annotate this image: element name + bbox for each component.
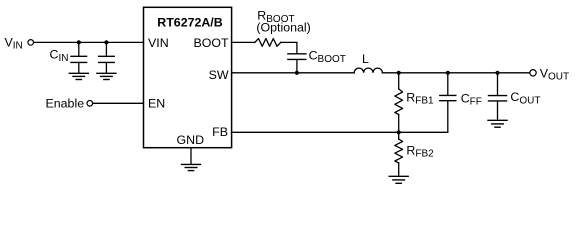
resistor RBOOT bbox=[255, 39, 281, 47]
ground bbox=[69, 73, 88, 79]
capacitor CIN b bbox=[99, 42, 115, 72]
svg-text:RT6272A/B: RT6272A/B bbox=[157, 16, 222, 30]
ground bbox=[389, 176, 408, 183]
capacitor CIN a bbox=[71, 42, 87, 72]
svg-text:VIN: VIN bbox=[148, 36, 169, 50]
svg-text:VIN: VIN bbox=[5, 35, 23, 51]
capacitor CFF bbox=[440, 73, 456, 133]
svg-text:FB: FB bbox=[212, 125, 228, 139]
terminal Enable bbox=[87, 101, 93, 107]
node input junction 2 bbox=[104, 40, 108, 44]
node SW-CBOOT junction bbox=[295, 71, 299, 75]
resistor RFB1 bbox=[395, 73, 403, 133]
node L-RFB1 junction bbox=[397, 71, 401, 75]
wire BOOT bbox=[232, 41, 255, 43]
terminal VIN bbox=[28, 40, 34, 46]
svg-text:EN: EN bbox=[148, 96, 165, 110]
inductor L bbox=[354, 68, 382, 73]
svg-text:Enable: Enable bbox=[46, 97, 85, 111]
wire bbox=[281, 42, 297, 53]
svg-text:GND: GND bbox=[177, 133, 205, 147]
svg-text:CBOOT: CBOOT bbox=[309, 49, 346, 65]
ground bbox=[97, 73, 116, 79]
svg-text:L: L bbox=[362, 52, 369, 66]
ground GND pin bbox=[182, 148, 201, 171]
node COUT junction bbox=[495, 71, 499, 75]
capacitor COUT bbox=[489, 73, 507, 120]
capacitor CBOOT bbox=[288, 54, 306, 73]
svg-text:RFB1: RFB1 bbox=[406, 90, 434, 106]
ground bbox=[488, 120, 507, 127]
wire input rail VIN bbox=[34, 41, 144, 43]
wire SW line bbox=[232, 72, 355, 74]
wire output line bbox=[382, 72, 530, 74]
node CFF junction bbox=[446, 71, 450, 75]
svg-text:CFF: CFF bbox=[461, 91, 482, 107]
svg-text:(Optional): (Optional) bbox=[256, 21, 310, 35]
svg-text:RFB2: RFB2 bbox=[406, 143, 434, 159]
wire FB line bbox=[232, 131, 448, 133]
wire EN bbox=[93, 102, 144, 104]
svg-text:BOOT: BOOT bbox=[193, 36, 229, 50]
node input junction 1 bbox=[77, 40, 81, 44]
svg-text:COUT: COUT bbox=[510, 90, 540, 106]
svg-text:VOUT: VOUT bbox=[540, 66, 569, 82]
resistor RFB2 bbox=[395, 132, 403, 175]
svg-text:SW: SW bbox=[209, 68, 229, 82]
svg-text:CIN: CIN bbox=[50, 48, 69, 64]
terminal VOUT bbox=[530, 70, 536, 76]
node FB junction bbox=[397, 130, 401, 134]
IC U1 RT6272A/B bbox=[144, 7, 232, 147]
